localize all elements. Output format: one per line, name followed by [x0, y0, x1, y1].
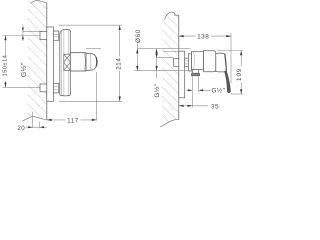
svg-text:150±14: 150±14 [2, 54, 8, 76]
svg-text:G½": G½" [153, 83, 161, 97]
svg-text:Ø60: Ø60 [135, 29, 142, 43]
svg-text:20: 20 [17, 125, 25, 132]
svg-text:214: 214 [116, 58, 123, 70]
svg-text:117: 117 [67, 118, 79, 125]
svg-text:138: 138 [197, 34, 209, 41]
svg-text:35: 35 [211, 103, 219, 110]
svg-text:G½": G½" [212, 87, 226, 95]
svg-text:109: 109 [236, 68, 243, 81]
svg-text:G½": G½" [20, 62, 28, 77]
